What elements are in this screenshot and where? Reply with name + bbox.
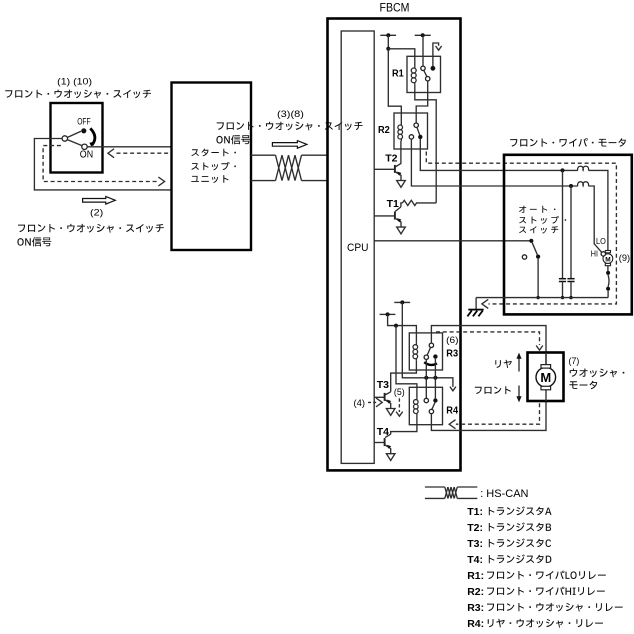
washer motor brush top [541, 365, 551, 369]
relay R2 switch lever [417, 127, 420, 135]
svg-text:(7): (7) [569, 356, 580, 367]
svg-text:LO: LO [596, 236, 606, 246]
svg-text:HI: HI [591, 249, 598, 259]
wire R3 common to washer motor feed [431, 326, 546, 365]
wire R2 NC to wiper HI [411, 139, 577, 186]
svg-text:(5): (5) [394, 387, 405, 398]
wire rail to ground [475, 298, 477, 310]
power rail A [380, 34, 396, 36]
arrow dashed washer in (down) [536, 346, 543, 351]
ground chassis [468, 309, 483, 311]
label ON signal line2 (bottom-left) [17, 237, 51, 246]
relay R3 switch lever [427, 347, 430, 355]
svg-text:R1:: R1: [467, 570, 484, 582]
wire T2 base [374, 168, 395, 170]
wire R3 NC to bus [425, 359, 427, 377]
legend HS-CAN symbol rails [425, 486, 445, 488]
wire HS-CAN lower rail [251, 180, 276, 182]
washer motor circle [536, 367, 556, 387]
wire auto-stop to ground rail [537, 259, 539, 298]
washer motor brush bottom [541, 386, 551, 390]
link auto-park [607, 275, 610, 287]
power rail B [415, 34, 431, 36]
wiper motor brush top [605, 251, 610, 253]
wire dashed flow from switch [43, 146, 157, 182]
wire washer motor bottom lead [545, 390, 547, 401]
switch wiper HI contact [601, 252, 605, 256]
svg-text:T4:: T4: [467, 554, 483, 566]
svg-text:R3:: R3: [467, 602, 484, 614]
wire R3 coil bottom to T3 [391, 361, 417, 392]
svg-text:FBCM: FBCM [380, 3, 410, 15]
wire dashed R2 to motor flow [426, 152, 616, 304]
relay R1 switch lever [424, 70, 427, 76]
relay R2 NO contact [418, 135, 422, 139]
switch SW lever to ON [67, 140, 82, 146]
svg-text:R4:: R4: [467, 618, 484, 630]
arrow dashed to ground (left) [482, 299, 488, 308]
svg-text:OFF: OFF [77, 116, 91, 126]
node auto-stop common [529, 239, 533, 243]
svg-text:T3: T3 [377, 379, 389, 391]
svg-text:(9): (9) [619, 253, 630, 264]
relay R3 throw arc [424, 362, 437, 365]
svg-text:T2: T2 [385, 152, 397, 164]
legend text R4 [488, 619, 603, 628]
svg-text:(4): (4) [354, 398, 366, 409]
label front wiper motor [510, 138, 626, 147]
arrow dashed return (left) [108, 149, 114, 158]
front wiper motor box [504, 155, 632, 315]
relay R1 switch lower contact [426, 77, 430, 81]
switch auto-stop lever [532, 243, 537, 255]
relay R2 coil [400, 123, 402, 141]
relay R2 NC contact [409, 135, 413, 139]
wire R2 NO to wiper LO [420, 139, 578, 170]
svg-text:M: M [540, 370, 551, 385]
wire R4 common to washer motor return [431, 401, 546, 430]
label auto-stop line1 [519, 206, 556, 213]
label front (furonto) [475, 386, 511, 394]
svg-text:(1) (10): (1) (10) [57, 76, 92, 87]
label unit line3 [191, 175, 228, 183]
label front washer switch ON signal line1 (mid) [217, 122, 363, 131]
wire dashed washer motor return [456, 403, 540, 424]
relay R1 switch common contact [421, 66, 425, 70]
wire junction to R4 coil [396, 326, 417, 398]
wire rail B to R1 switch [422, 35, 424, 66]
choke LO [578, 166, 589, 170]
svg-text:T1:: T1: [467, 506, 483, 518]
wire R1 NO to external (hook) [433, 43, 439, 66]
arrow contact bus external down [450, 387, 456, 391]
wiper motor circle [603, 254, 613, 264]
legend text T3 [489, 538, 551, 547]
svg-text:R2:: R2: [467, 586, 484, 598]
relay R4 switch lever [432, 403, 435, 410]
legend text R2 [487, 587, 605, 596]
transistor T1 [394, 212, 396, 220]
node LO wire cap junction [561, 168, 565, 172]
label washer line1 [570, 369, 625, 378]
relay R3 coil [415, 343, 417, 361]
wire R1 lower contact to R2 common [416, 81, 428, 123]
wire R1 coil bottom to T1 resistor [415, 85, 436, 203]
wire CPU to auto-stop switch [374, 240, 531, 242]
wire dashed R3 to washer motor [436, 332, 540, 345]
relay R4 box [409, 387, 442, 424]
label start line1 [191, 149, 236, 157]
transistor T2 [394, 165, 396, 173]
svg-text:T3:: T3: [467, 538, 483, 550]
node OFF contact [81, 128, 86, 133]
wire T4 base [374, 442, 384, 444]
svg-text:(3)(8): (3)(8) [277, 109, 304, 120]
wire park link to rail [607, 291, 609, 298]
node park link bottom [606, 287, 610, 291]
ground rail in wiper box [476, 297, 608, 299]
relay R4 coil [416, 398, 418, 416]
switch auto-stop open contact [522, 255, 526, 259]
ground T2 emitter [397, 181, 406, 188]
CPU box [341, 31, 374, 463]
resistor T1 collector [403, 200, 437, 205]
wire rail A down [387, 35, 389, 49]
svg-text:R3: R3 [446, 348, 458, 360]
svg-text:T2:: T2: [467, 522, 483, 534]
arrow (2) signal [83, 197, 116, 205]
node contact bus left [424, 376, 428, 380]
node auto-stop moving contact [536, 255, 540, 259]
relay R3 NC contact [424, 355, 428, 359]
relay R3 common contact [429, 343, 433, 347]
node power rail A [386, 33, 390, 37]
legend text T4 [489, 554, 552, 563]
relay R4 upper-left contact [424, 398, 428, 402]
relay R1 box [407, 56, 441, 92]
arrow dashed flow (right) [158, 177, 164, 186]
switch SW throw arrow [90, 128, 95, 145]
node rail A junction [386, 47, 390, 51]
ground T3 emitter [386, 409, 395, 416]
node power rail D [386, 312, 390, 316]
wire rail C to contact bus [402, 302, 453, 387]
wire junction to R1 coil [388, 49, 415, 66]
svg-text:R2: R2 [378, 124, 390, 136]
svg-text:(6): (6) [446, 335, 458, 346]
switch SW ON contact [82, 144, 87, 149]
wire bus to R4 upper contacts [425, 378, 427, 399]
label rear (riya) [495, 360, 511, 368]
wire T1 base [374, 215, 395, 217]
capacitor C2 [567, 278, 574, 280]
arrow dashed (4) into T3 base [368, 401, 377, 403]
wire rail D to R3 coil [388, 314, 417, 342]
node C1 on rail [561, 296, 564, 299]
capacitor C1 [559, 278, 566, 280]
relay R1 NO contact [431, 66, 436, 71]
node C2 on rail [569, 296, 572, 299]
node contact bus right [433, 376, 437, 380]
transistor T3 [384, 393, 386, 401]
svg-text:: HS-CAN: : HS-CAN [480, 488, 528, 500]
washer switch box SW [51, 103, 103, 173]
label washer line2 [569, 381, 597, 390]
wire junction down to R2 coil [388, 49, 401, 123]
arrow dashed (5) down [398, 398, 400, 412]
svg-text:R1: R1 [392, 67, 404, 79]
FBCM box [328, 19, 461, 471]
legend text T2 [489, 522, 551, 531]
legend text T1 [489, 506, 552, 515]
label auto-stop line2 [519, 216, 566, 224]
wire SW pivot left-down-right to start-stop unit [34, 139, 171, 190]
arrow (3)(8) signal [272, 141, 307, 149]
wire dashed return into switch [117, 152, 172, 154]
wire washer motor top lead [545, 353, 547, 365]
relay R4 NO contact [433, 398, 437, 402]
capacitor C2 top lead [570, 186, 572, 278]
wiper motor brush bottom [605, 263, 610, 265]
svg-text:ON: ON [80, 150, 93, 161]
label ON signal line2 (mid) [216, 135, 250, 144]
svg-text:M: M [605, 256, 610, 263]
arrow dashed washer return (left) [449, 420, 455, 429]
relay R4 common contact [429, 409, 433, 413]
svg-text:T1: T1 [387, 198, 399, 210]
arrow front direction down [518, 386, 520, 398]
start-stop unit box [172, 83, 252, 251]
label front washer switch (top) [5, 90, 151, 99]
choke HI [578, 182, 589, 186]
node park link top [606, 271, 610, 275]
svg-text:T4: T4 [377, 426, 389, 438]
node auto-stop on rail [536, 296, 539, 299]
arrow R1 external down [436, 46, 442, 50]
capacitor C1 bottom lead [562, 282, 564, 298]
label front washer switch ON signal line1 (bottom-left) [18, 224, 164, 233]
wire T3 base [374, 396, 384, 398]
node power rail B [421, 33, 425, 37]
washer motor box [528, 353, 564, 402]
wire HS-CAN upper rail [251, 154, 276, 156]
legend text R3 [487, 603, 623, 612]
relay R3 box [409, 333, 442, 370]
svg-text:(2): (2) [90, 208, 103, 219]
legend twisted pair HS-CAN [445, 487, 448, 498]
transistor T4 [384, 438, 386, 446]
node power rail C [400, 300, 404, 304]
node HI wire cap junction [569, 184, 573, 188]
wire R4 coil bottom to T4 [391, 416, 417, 435]
capacitor C1 top lead [562, 170, 564, 278]
wire R3 NO to bus [434, 359, 436, 378]
svg-text:CPU: CPU [347, 242, 369, 254]
switch SW pivot contact [62, 136, 67, 141]
ground T4 emitter [386, 454, 395, 461]
wire motor to park link [607, 266, 609, 271]
twisted pair HS-CAN [276, 155, 283, 180]
relay R2 switch common contact [414, 123, 418, 127]
arrow rear direction up [518, 358, 520, 372]
switch SW lever to OFF [67, 131, 81, 137]
capacitor C2 bottom lead [570, 282, 572, 298]
ground T1 emitter [397, 227, 406, 234]
wire SW ON to start-stop unit [87, 146, 171, 148]
power rail D [380, 313, 396, 315]
power rail C [394, 301, 410, 303]
legend text R1 [487, 571, 606, 580]
svg-text:R4: R4 [446, 405, 458, 417]
label auto-stop line3 [519, 226, 558, 233]
node R3/R4 coil feed junction [394, 324, 398, 328]
relay R2 box [394, 113, 428, 149]
relay R3 NO contact [433, 354, 437, 358]
label stop line2 [191, 162, 236, 170]
relay R1 coil [414, 66, 416, 85]
